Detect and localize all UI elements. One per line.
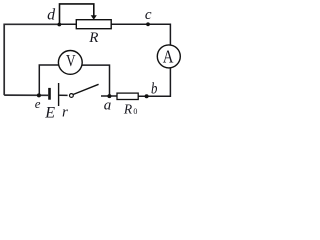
switch pivot circle [70, 94, 74, 98]
node d junction dot [57, 23, 61, 27]
wire: bottom-left corner to battery thick plate [4, 94, 48, 96]
voltmeter U-V circle [58, 51, 82, 75]
svg-text:c: c [145, 7, 152, 23]
wire: ammeter bottom to bottom-right corner to node b and R0 right [139, 67, 171, 96]
node b junction dot [145, 94, 149, 98]
wire: voltmeter left lead down to node e [39, 65, 58, 95]
svg-text:V: V [66, 52, 76, 71]
svg-text:R: R [88, 30, 98, 46]
wire: switch right terminal to node a to R0 left [101, 95, 117, 97]
wire: rheostat right terminal to node c to top-right corner down to ammeter [111, 24, 170, 45]
wire: voltmeter right lead down to node a [82, 65, 109, 96]
svg-text:r: r [62, 105, 68, 120]
rheostat slider wire with arrow [60, 4, 94, 24]
wire: battery thin plate to switch pivot [59, 94, 67, 96]
svg-text:a: a [104, 97, 112, 113]
battery: thin long plate (positive) [58, 83, 60, 106]
svg-text:A: A [163, 46, 174, 67]
resistor R (rheostat body) [76, 20, 111, 29]
svg-text:E: E [44, 104, 55, 119]
node a junction dot [107, 94, 111, 98]
svg-text:e: e [35, 96, 41, 111]
svg-text:R: R [123, 101, 133, 116]
resistor R0 [117, 93, 138, 99]
svg-text:0: 0 [133, 107, 137, 116]
svg-text:b: b [151, 80, 157, 98]
node e junction dot [37, 93, 41, 97]
ammeter U-A circle [157, 45, 180, 68]
node c junction dot [146, 22, 150, 26]
wire: outer left vertical + top-left horizontal to node d [4, 24, 59, 95]
switch lever (open) [73, 84, 99, 94]
svg-text:d: d [47, 7, 56, 24]
battery: thick short plate (negative) [48, 88, 51, 100]
wire: node d to rheostat left terminal [60, 23, 77, 25]
